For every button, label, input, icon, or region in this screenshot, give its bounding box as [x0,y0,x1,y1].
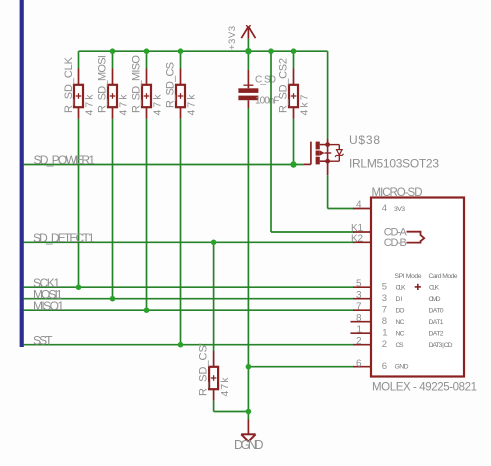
svg-text:1: 1 [357,324,363,335]
svg-text:CLK: CLK [396,284,406,291]
junction rail K1 pull [268,48,274,54]
svg-text:47k: 47k [219,377,231,397]
junction SD_POWER1 R_SD_CS2 [290,161,296,167]
junction rail R3 [144,48,150,54]
pin K2 stub [353,241,371,243]
pin 2 stub [353,344,371,346]
svg-text:MOLEX - 49225-0821: MOLEX - 49225-0821 [372,382,477,394]
wire R2 top [112,51,114,68]
svg-text:3: 3 [356,290,362,301]
junction SCK1 R1 [76,284,82,290]
wire SST [24,344,355,346]
junction MOSI1 R2 [110,296,116,302]
resistor R_SD_CS1 [209,351,218,401]
svg-text:CD-B: CD-B [384,237,407,249]
pin 3 stub [353,298,371,300]
svg-text:K2: K2 [351,233,363,244]
wire R3 top [146,51,148,68]
svg-text:R_SD_CS': R_SD_CS' [197,343,209,396]
switch bracket CD [407,232,425,243]
pin 1 stub [351,332,372,334]
svg-text:6: 6 [382,361,387,372]
power +3V3 symbol [241,25,255,51]
junction R_SD_CS1 bottom [246,409,252,415]
svg-text:GND: GND [395,364,409,371]
wire R4 bottom to SST [180,119,182,345]
resistor R_SD_CS [176,69,185,119]
wire GND row down to DGND [247,367,249,420]
svg-text:5: 5 [382,282,387,293]
pin 6 stub [353,366,371,368]
svg-text:DGND: DGND [234,438,264,452]
junction rail R4 [178,48,184,54]
svg-text:SPI Mode: SPI Mode [395,273,422,280]
svg-text:4: 4 [356,200,362,211]
wire R1 bottom to SCK1 [78,119,80,287]
svg-text:+3V3: +3V3 [227,26,238,50]
wire SD_DETECT1 [24,241,355,243]
wire GND row [248,366,354,368]
wire K1 pull-up vertical [270,51,272,232]
pin K1 stub [353,231,371,233]
svg-text:IRLM5103SOT23: IRLM5103SOT23 [349,156,439,170]
wire MOSFET drain from rail [327,51,329,139]
svg-text:NC: NC [396,330,405,337]
svg-text:2: 2 [382,339,387,350]
bus [20,0,24,347]
junction rail +3V3 [245,48,251,54]
wire +3V3 to C_SD [247,51,249,70]
pin 5 stub [353,286,371,288]
svg-text:DAT2: DAT2 [429,330,444,337]
svg-text:8: 8 [356,313,362,324]
svg-text:NC: NC [396,319,405,326]
wire R_SD_CS1 top from SD_DETECT1 [213,242,215,351]
junction SD_DETECT1 R_SD_CS1 [211,240,217,246]
svg-text:5: 5 [356,278,362,289]
resistor R_SD_CLK [74,69,83,119]
wire MISO1 [24,309,355,311]
svg-text:47k: 47k [152,94,164,116]
wire R4 top [180,51,182,68]
svg-text:DAT0: DAT0 [429,307,444,314]
wire C_SD down to GND row [247,108,249,367]
wire SCK1 [24,286,355,288]
svg-text:DAT1: DAT1 [429,319,444,326]
svg-text:MISO1: MISO1 [33,299,64,313]
svg-text:R_SD_CS: R_SD_CS [164,62,176,108]
wire K1 horizontal [271,231,354,233]
wire top rail +3V3 [79,50,328,52]
svg-text:R_SD_MISO: R_SD_MISO [130,55,142,113]
svg-text:8: 8 [382,316,387,327]
junction rail R2 [110,48,116,54]
ground DGND [241,434,255,441]
svg-text:R_SD_CLK: R_SD_CLK [63,56,75,113]
svg-text:100nF: 100nF [255,95,280,106]
svg-text:Card Mode: Card Mode [429,273,458,280]
svg-text:C_SD: C_SD [255,74,276,85]
pin 4 stub [353,208,371,210]
capacitor C_SD [238,70,258,108]
svg-text:DI: DI [396,296,403,303]
wire R_SD_CS1 bottom [213,401,215,412]
svg-text:DAT3 | CD: DAT3 | CD [429,342,453,349]
junction MISO1 R3 [144,307,150,313]
transistor U$38 [304,139,344,175]
wire R3 bottom to MISO1 [146,119,148,310]
junction SST R4 [178,342,184,348]
svg-text:47k: 47k [186,94,198,116]
svg-text:SD_POWER1: SD_POWER1 [34,153,96,167]
wire MOSI1 [24,298,355,300]
svg-text:CLK: CLK [429,284,439,291]
svg-text:7: 7 [356,301,362,312]
wire R_SD_CS2 top [293,51,295,68]
svg-text:SD_DETECT1: SD_DETECT1 [33,231,95,245]
svg-text:47k: 47k [118,94,130,116]
svg-text:U$38: U$38 [349,133,380,147]
svg-text:MICRO-SD: MICRO-SD [372,187,423,199]
wire R1 top [78,51,80,68]
svg-text:DO: DO [396,307,405,314]
wire R_SD_CS2 bottom to SD_POWER1 [293,119,295,165]
svg-text:1: 1 [382,328,387,339]
junction GND row [246,364,252,370]
svg-text:3: 3 [382,293,387,304]
ground pin lead [247,420,249,435]
svg-text:4k7: 4k7 [299,94,311,115]
connector MICRO-SD box [371,198,464,377]
wire MOSFET source to pin4 [327,175,329,208]
svg-text:2: 2 [356,336,362,347]
wire R2 bottom to MOSI1 [112,119,114,299]
svg-text:47k: 47k [84,94,96,116]
resistor R_SD_CS2 [289,69,298,119]
plus mark [415,286,421,288]
pin 7 stub [353,309,371,311]
svg-text:3V3: 3V3 [394,206,405,213]
svg-text:CMD: CMD [429,296,441,303]
svg-text:R_SD_CS2: R_SD_CS2 [277,58,289,113]
svg-text:6: 6 [356,359,362,370]
svg-text:SST: SST [33,334,53,348]
junction rail R_SD_CS2 [291,48,297,54]
svg-text:R_SD_MOSI: R_SD_MOSI [96,55,108,113]
svg-text:CS: CS [396,342,404,349]
pin 8 stub [351,321,372,323]
wire SD_POWER1 [24,164,305,166]
resistor R_SD_MOSI [108,69,117,119]
svg-text:4: 4 [382,203,387,214]
svg-text:7: 7 [382,305,387,316]
resistor R_SD_MISO [142,69,151,119]
